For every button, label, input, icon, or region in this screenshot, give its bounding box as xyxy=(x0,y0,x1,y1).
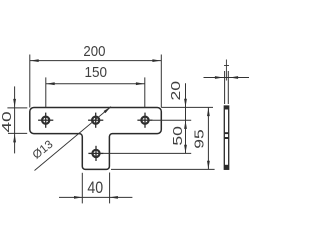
svg-text:40: 40 xyxy=(0,111,14,132)
svg-text:50: 50 xyxy=(171,126,185,146)
hole right xyxy=(137,113,152,128)
svg-text:150: 150 xyxy=(84,64,107,81)
dimension 150 xyxy=(46,77,145,107)
hole left xyxy=(38,113,53,128)
hole stub xyxy=(88,146,103,161)
svg-text:95: 95 xyxy=(193,129,207,149)
dimension 20 (top edge to hole line) xyxy=(153,81,213,129)
side view: thickness dimension xyxy=(204,71,250,104)
hole center xyxy=(88,113,103,128)
svg-text:20: 20 xyxy=(169,81,183,101)
dimension 200 xyxy=(30,55,162,108)
T-bracket plate outline xyxy=(30,108,162,170)
svg-text:40: 40 xyxy=(87,179,103,197)
dimension 40 left xyxy=(7,86,27,153)
side view: centerline xyxy=(225,60,227,81)
side view: section strip xyxy=(224,106,228,169)
dimension 95 xyxy=(111,108,215,170)
dimension 50 (hole line to stub hole) xyxy=(104,120,192,153)
svg-text:200: 200 xyxy=(83,42,105,59)
leader line Ø13 xyxy=(35,107,112,171)
dimension 40 bottom xyxy=(59,173,132,204)
